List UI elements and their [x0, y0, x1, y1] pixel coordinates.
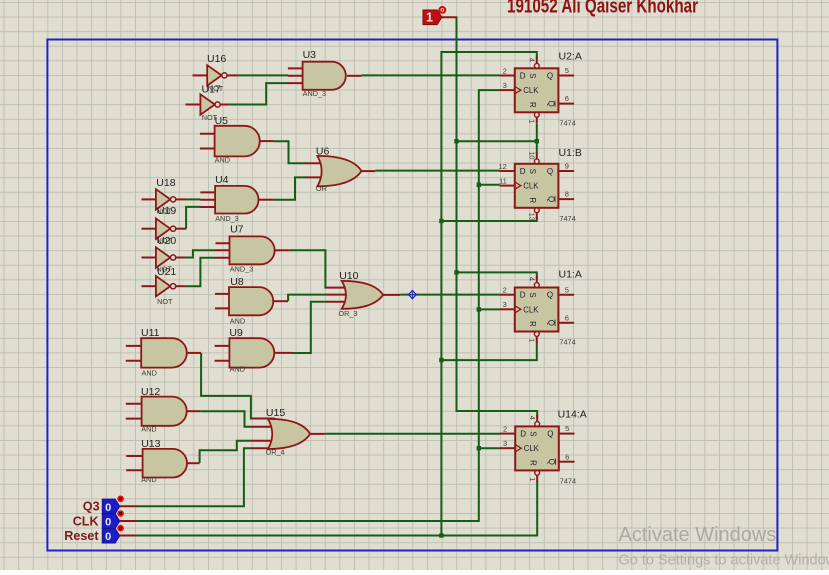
- svg-text:0: 0: [105, 517, 111, 529]
- svg-text:D: D: [520, 167, 526, 176]
- svg-text:3: 3: [503, 300, 507, 309]
- wire U7 out to U10 in1: [290, 250, 327, 287]
- svg-text:Q: Q: [547, 291, 553, 300]
- svg-text:13: 13: [528, 213, 537, 221]
- svg-text:S: S: [528, 73, 537, 78]
- svg-text:U10: U10: [339, 270, 358, 282]
- AND_3 gate U3: [288, 49, 362, 98]
- wire U18 out to U4 in2: [186, 198, 200, 200]
- svg-text:4: 4: [528, 416, 537, 420]
- svg-text:D: D: [520, 430, 526, 439]
- wire: Reset bus up to U2:A S: [441, 52, 536, 536]
- svg-text:OR_4: OR_4: [266, 447, 285, 456]
- svg-text:Q: Q: [546, 100, 555, 106]
- svg-text:10: 10: [528, 151, 537, 159]
- svg-text:AND: AND: [230, 316, 245, 325]
- wire junction: [454, 139, 458, 143]
- svg-text:Go to Settings to activate Win: Go to Settings to activate Windows.: [619, 553, 829, 569]
- wire junction: [439, 358, 443, 362]
- wire U4 out to U6 in2: [274, 177, 305, 199]
- wire vertical U2:A R to U1:B S: [536, 124, 538, 154]
- svg-text:R: R: [528, 197, 537, 203]
- svg-text:7474: 7474: [560, 476, 576, 485]
- AND_3 gate U4: [200, 174, 274, 223]
- NOT gate U18: [142, 177, 187, 216]
- wire branch to U1:A S: [457, 272, 537, 279]
- svg-text:U13: U13: [141, 438, 160, 450]
- wire junction: [454, 270, 458, 274]
- svg-text:191052 Ali Qaiser Khokhar: 191052 Ali Qaiser Khokhar: [507, 0, 698, 18]
- svg-text:Q: Q: [547, 459, 556, 465]
- wire U16 out to U3 in2: [238, 74, 288, 76]
- svg-text:U15: U15: [266, 407, 285, 419]
- wire U9 out to U10 in3: [293, 302, 328, 353]
- svg-text:R: R: [528, 102, 537, 108]
- svg-text:Reset: Reset: [64, 529, 99, 543]
- wire branch to U1:B R: [441, 217, 536, 221]
- svg-text:U19: U19: [157, 205, 176, 217]
- wire U13 out to U15 in3: [200, 441, 252, 463]
- svg-text:U4: U4: [215, 174, 229, 186]
- svg-text:4: 4: [528, 58, 537, 62]
- wire: Reset run to U14:A R: [136, 482, 537, 536]
- wire junction: [535, 139, 539, 143]
- wire U17 out to U3 in3: [229, 83, 288, 104]
- svg-text:1: 1: [528, 119, 537, 123]
- svg-text:OR_3: OR_3: [338, 309, 357, 318]
- svg-text:AND_3: AND_3: [230, 265, 254, 274]
- svg-text:7474: 7474: [559, 118, 575, 127]
- wire U12 out to U15 in2: [200, 411, 252, 427]
- OR gate U6: [305, 145, 376, 193]
- svg-text:3: 3: [503, 439, 507, 448]
- svg-text:2: 2: [503, 286, 507, 295]
- svg-text:R: R: [528, 321, 537, 327]
- wire junction: [477, 307, 481, 311]
- svg-text:OR: OR: [316, 184, 327, 193]
- svg-text:U3: U3: [303, 49, 317, 61]
- input port Reset: [64, 525, 136, 543]
- svg-text:CLK: CLK: [523, 86, 539, 95]
- NOT gate U16: [193, 53, 238, 93]
- wire U3 out to U2:A D: [362, 74, 500, 76]
- svg-text:AND_3: AND_3: [303, 89, 327, 98]
- wire: CLK bus: [136, 90, 500, 521]
- wire CLK to U1:A: [479, 308, 500, 310]
- svg-text:U8: U8: [230, 276, 244, 288]
- wire branch to U1:A R: [441, 342, 536, 360]
- AND_3 gate U7: [216, 223, 290, 273]
- svg-text:5: 5: [565, 285, 569, 294]
- svg-text:U21: U21: [157, 266, 176, 278]
- svg-text:4: 4: [528, 277, 537, 281]
- svg-text:8: 8: [565, 190, 569, 199]
- wire: 1-constant bus down to U14:A S: [457, 17, 538, 418]
- wire junction: [439, 533, 443, 537]
- svg-text:12: 12: [498, 162, 506, 171]
- sheet border: [47, 40, 777, 551]
- svg-text:NOT: NOT: [157, 297, 173, 306]
- node marker on U10 output net: [408, 290, 418, 298]
- NOT gate U17: [186, 83, 230, 122]
- wire stub from 1-constant: [441, 16, 457, 18]
- svg-text:S: S: [528, 169, 537, 174]
- NOT gate U19: [142, 205, 187, 245]
- svg-text:2: 2: [503, 66, 507, 75]
- wire U11 out to U15 in1: [201, 353, 252, 419]
- svg-text:Q: Q: [547, 430, 553, 439]
- D flip-flop U1:B (7474): [498, 147, 581, 223]
- wire Q3 port to U15 in4: [136, 448, 252, 506]
- svg-text:0: 0: [105, 502, 111, 514]
- svg-text:D: D: [520, 291, 526, 300]
- svg-text:U17: U17: [202, 83, 221, 95]
- svg-text:R: R: [529, 460, 538, 466]
- wire junction: [477, 446, 481, 450]
- wire junction: [477, 183, 481, 187]
- wire U20 out to U7 in2: [186, 250, 216, 257]
- svg-text:AND: AND: [141, 425, 156, 434]
- svg-text:S: S: [528, 292, 537, 297]
- svg-text:CLK: CLK: [523, 305, 539, 314]
- svg-text:S: S: [529, 431, 538, 436]
- svg-text:7474: 7474: [559, 338, 575, 347]
- svg-text:AND: AND: [142, 369, 157, 378]
- svg-text:U12: U12: [141, 386, 160, 398]
- svg-text:0: 0: [105, 531, 111, 543]
- AND gate U8: [215, 276, 288, 326]
- svg-text:CLK: CLK: [523, 182, 539, 191]
- svg-text:6: 6: [565, 94, 569, 103]
- svg-text:U2:A: U2:A: [559, 50, 582, 62]
- svg-text:U16: U16: [207, 53, 226, 65]
- D flip-flop U1:A (7474): [500, 269, 582, 347]
- D flip-flop U14:A (7474): [500, 408, 587, 485]
- svg-text:U6: U6: [316, 145, 330, 157]
- input port CLK: [73, 510, 137, 528]
- svg-text:U18: U18: [156, 177, 175, 189]
- input port Q3: [83, 496, 137, 514]
- svg-text:Q: Q: [547, 72, 553, 81]
- svg-text:Q: Q: [546, 320, 555, 326]
- svg-text:1: 1: [528, 338, 537, 342]
- svg-text:7474: 7474: [559, 214, 575, 223]
- svg-text:11: 11: [499, 176, 507, 185]
- svg-text:6: 6: [565, 313, 569, 322]
- AND gate U9: [215, 327, 293, 374]
- D flip-flop U2:A (7474): [500, 50, 582, 127]
- svg-text:Activate Windows: Activate Windows: [619, 524, 777, 546]
- AND gate U11: [126, 327, 201, 378]
- OR_3 gate U10: [327, 270, 401, 318]
- svg-text:5: 5: [565, 424, 569, 433]
- svg-text:1: 1: [426, 11, 433, 25]
- AND gate U13: [126, 438, 199, 484]
- svg-text:U14:A: U14:A: [558, 408, 587, 420]
- svg-text:Q3: Q3: [83, 500, 100, 514]
- svg-text:6: 6: [565, 452, 569, 461]
- svg-text:U20: U20: [157, 235, 176, 247]
- svg-text:Q: Q: [546, 196, 555, 202]
- wire U6 out to U1:B D: [375, 170, 500, 172]
- wire U15 out to U14:A D: [325, 433, 500, 435]
- svg-text:U9: U9: [229, 327, 243, 339]
- wire U10 out to U1:A D: [400, 294, 500, 296]
- NOT gate U21: [142, 266, 186, 306]
- svg-text:Q: Q: [547, 167, 553, 176]
- wire U8 out to U10 in2: [288, 295, 327, 301]
- svg-text:U5: U5: [215, 115, 229, 127]
- svg-text:U7: U7: [230, 223, 244, 235]
- svg-text:5: 5: [565, 66, 569, 75]
- wire U5 out to U6 in1: [273, 141, 305, 163]
- AND gate U12: [126, 386, 200, 433]
- svg-text:AND: AND: [141, 475, 156, 484]
- svg-text:AND_3: AND_3: [215, 214, 239, 223]
- NOT gate U20: [142, 235, 186, 274]
- svg-text:2: 2: [503, 424, 507, 433]
- logic state 1 constant: [423, 7, 445, 25]
- svg-text:U1:A: U1:A: [559, 269, 582, 281]
- wire junction: [439, 219, 443, 223]
- AND gate U5: [200, 115, 274, 164]
- wire branch y141 to U2:A R / U1:B S: [457, 140, 537, 142]
- wire U21 out to U7 in3: [186, 258, 216, 287]
- svg-text:3: 3: [503, 81, 507, 90]
- svg-text:AND: AND: [230, 365, 245, 374]
- svg-text:D: D: [520, 72, 526, 81]
- OR_4 gate U15: [252, 407, 326, 457]
- svg-text:9: 9: [565, 162, 569, 171]
- svg-text:CLK: CLK: [73, 514, 99, 528]
- wire CLK to U14:A: [479, 447, 501, 449]
- svg-text:U11: U11: [141, 327, 160, 339]
- svg-text:CLK: CLK: [524, 444, 540, 453]
- svg-text:AND: AND: [215, 155, 230, 164]
- wire CLK to U1:B: [479, 184, 500, 186]
- svg-text:1: 1: [528, 477, 537, 481]
- svg-text:U1:B: U1:B: [559, 147, 582, 159]
- wire U19 out to U4 in3: [186, 207, 200, 229]
